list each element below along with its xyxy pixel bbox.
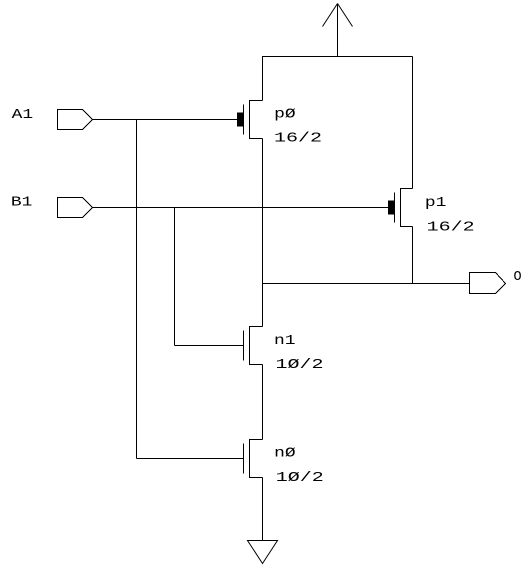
wire output net — [263, 283, 470, 285]
nmos n0 — [244, 440, 263, 478]
svg-text:pØ: pØ — [274, 108, 296, 123]
power VDD — [323, 4, 353, 57]
svg-text:nØ: nØ — [274, 447, 296, 462]
svg-text:B1: B1 — [11, 196, 33, 211]
wire n1 source to n0 drain — [262, 365, 264, 440]
svg-text:1Ø/2: 1Ø/2 — [276, 358, 324, 373]
node B1 junction — [174, 208, 176, 346]
svg-text:16/2: 16/2 — [427, 221, 475, 236]
wire n0 source to ground — [262, 478, 264, 541]
wire p0 drain to rail — [262, 57, 264, 101]
node A1 junction — [136, 120, 138, 459]
wire junction to n1 gate — [175, 345, 244, 347]
pmos p0 — [237, 101, 263, 139]
wire p1 source down to output wire — [412, 227, 414, 284]
ground — [248, 541, 278, 564]
nmos n1 — [244, 327, 263, 365]
svg-text:O: O — [514, 270, 522, 285]
svg-text:1Ø/2: 1Ø/2 — [276, 471, 324, 486]
pmos p1 — [388, 189, 413, 227]
svg-text:p1: p1 — [425, 196, 447, 211]
wire A1 to p0 gate — [93, 119, 238, 121]
port B1 — [58, 198, 93, 218]
wire p1 drain to rail — [412, 57, 414, 189]
svg-text:16/2: 16/2 — [274, 132, 322, 147]
port A1 — [58, 110, 93, 130]
port O — [470, 273, 506, 294]
wire B1 to p1 gate — [93, 207, 389, 209]
svg-text:A1: A1 — [12, 108, 34, 123]
wire VDD rail — [262, 56, 413, 58]
wire p0 source to output node — [262, 139, 264, 327]
svg-text:n1: n1 — [274, 334, 296, 349]
wire junction to n0 gate — [137, 458, 244, 460]
